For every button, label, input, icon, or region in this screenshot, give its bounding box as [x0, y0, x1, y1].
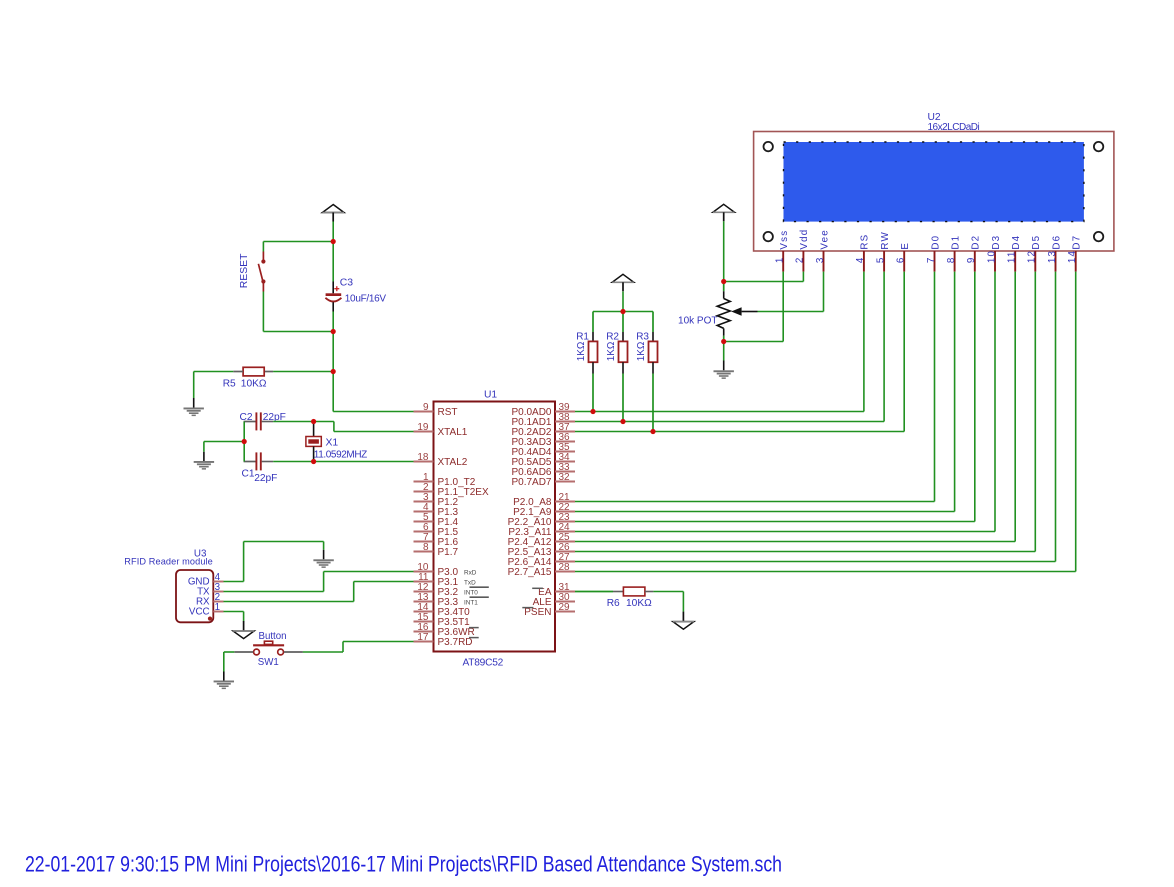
- wire stub (dark) into xtal ground: [203, 452, 205, 461]
- label 1KΩ (R3): [636, 341, 647, 361]
- wire net P2.0_A8 to D0: [575, 272, 935, 502]
- IC U1 pin 27 P2.6_A14 (right): [508, 552, 575, 568]
- U1 overline WR (pin 16): [469, 627, 479, 629]
- junction r5-node: [331, 369, 336, 374]
- resistor R5 10KΩ (horizontal): [233, 367, 333, 376]
- label SW1: [258, 657, 279, 668]
- wire SW1 left to ground: [224, 652, 235, 672]
- supply VCC pot: [713, 204, 735, 221]
- svg-text:6: 6: [896, 256, 907, 263]
- svg-text:E: E: [900, 242, 911, 250]
- junction cap-gnd: [242, 439, 247, 444]
- LCD U2 pin 8 D1: [946, 235, 962, 272]
- label RFID Reader module: [124, 557, 213, 567]
- U1 overline RD (pin 17): [469, 637, 479, 639]
- wire net P2.7_A15 to D7: [575, 272, 1076, 572]
- label R3: [636, 332, 649, 343]
- status text (plot stamp): [25, 852, 782, 877]
- capacitor C2 22pF: [244, 412, 274, 430]
- svg-text:32: 32: [559, 472, 571, 483]
- wire C1 to XTAL2 node: [273, 461, 313, 463]
- LCD module U2 16x2LCDaDi body: [754, 132, 1114, 252]
- wire XTAL2 node to pin18: [314, 461, 414, 463]
- IC U1 pin 31 EA (right): [538, 582, 575, 598]
- crystal X1 11.0592MHZ: [306, 422, 321, 462]
- LCD U2 mounting hole bottom-left: [764, 232, 773, 241]
- wire net P2.4_A12 to D4: [575, 272, 1015, 542]
- junction r2-p01: [620, 419, 625, 424]
- junction r3-p02: [650, 429, 655, 434]
- svg-text:RxD: RxD: [464, 569, 477, 576]
- label R5 10KΩ: [223, 378, 267, 389]
- svg-text:R1: R1: [576, 332, 589, 343]
- svg-text:Vdd: Vdd: [799, 229, 810, 250]
- svg-text:4: 4: [855, 256, 866, 263]
- IC U1 pin 26 P2.5_A13 (right): [508, 542, 575, 558]
- wire net P0.2AD2 to E: [575, 272, 904, 432]
- svg-text:8: 8: [946, 256, 957, 263]
- wire vcc junction down to C3 top: [332, 242, 334, 282]
- svg-text:D3: D3: [991, 235, 1002, 250]
- IC U1 AT89C52 body: [434, 402, 556, 652]
- IC U1 pin 19 XTAL1 (left): [414, 422, 468, 438]
- svg-text:5: 5: [875, 256, 886, 263]
- svg-text:11: 11: [1007, 251, 1018, 264]
- svg-text:P3.7RD: P3.7RD: [438, 637, 473, 648]
- IC U1 pin 14 P3.4T0 (left): [414, 602, 471, 618]
- svg-text:Vss: Vss: [779, 230, 790, 250]
- IC U1 pin 4 P1.3 (left): [414, 502, 459, 518]
- resistor R6 10KΩ (horizontal): [575, 587, 653, 596]
- potentiometer 10k POT: [717, 282, 757, 342]
- junction r1-p00: [590, 409, 595, 414]
- label C1: [242, 469, 255, 480]
- svg-text:1KΩ: 1KΩ: [636, 341, 647, 361]
- label U1: [484, 389, 497, 400]
- svg-text:P0.7AD7: P0.7AD7: [511, 477, 551, 488]
- IC U1 pin 5 P1.4 (left): [414, 512, 459, 528]
- svg-text:PSEN: PSEN: [524, 607, 551, 618]
- label X1: [326, 437, 339, 448]
- svg-text:1: 1: [215, 602, 220, 613]
- svg-text:INT0: INT0: [464, 590, 478, 597]
- svg-text:RST: RST: [438, 407, 458, 418]
- svg-text:3: 3: [815, 256, 826, 263]
- junction pot-bot: [721, 339, 726, 344]
- label 10k POT: [678, 315, 717, 326]
- svg-text:RS: RS: [860, 234, 871, 250]
- wire cap node to ground: [204, 442, 244, 452]
- IC U1 pin 23 P2.2_A10 (right): [508, 512, 575, 528]
- wire pot top to LCD Vdd: [724, 272, 804, 282]
- wire cap left column: [243, 422, 245, 462]
- svg-text:D0: D0: [930, 235, 941, 250]
- wire net P2.2_A10 to D2: [575, 272, 975, 522]
- IC U1 pin 6 P1.5 (left): [414, 522, 459, 538]
- svg-text:SW1: SW1: [258, 657, 279, 668]
- svg-text:29: 29: [559, 602, 571, 613]
- junction reset-low: [331, 329, 336, 334]
- capacitor C3 10uF/16V (polarized): [325, 282, 341, 312]
- svg-text:D2: D2: [971, 235, 982, 250]
- wire net P2.1_A9 to D1: [575, 272, 955, 512]
- svg-text:D4: D4: [1011, 235, 1022, 250]
- wire SW1 right to P3.7RD: [303, 642, 414, 653]
- wire VCC down to junction: [332, 222, 334, 242]
- svg-text:R2: R2: [606, 332, 619, 343]
- wire net P0.0AD0 to RS: [575, 272, 864, 412]
- ground sw1: [214, 681, 234, 690]
- svg-text:XTAL1: XTAL1: [438, 427, 468, 438]
- IC U1 pin 29 PSEN (right): [524, 602, 575, 618]
- label R1: [576, 332, 589, 343]
- svg-text:P1.7: P1.7: [438, 547, 459, 558]
- LCD U2 pin 1 Vss: [775, 230, 791, 272]
- LCD U2 mounting hole top-right: [1094, 142, 1103, 151]
- IC U1 pin 36 P0.3AD3 (right): [511, 432, 575, 448]
- supply VCC pullups: [612, 274, 634, 291]
- U3 pin 4 GND: [188, 572, 224, 588]
- svg-text:P2.7_A15: P2.7_A15: [508, 567, 552, 578]
- label AT89C52: [463, 658, 504, 669]
- label C2: [240, 412, 253, 423]
- IC U1 pin 7 P1.6 (left): [414, 532, 459, 548]
- wire pot wiper to LCD Vee: [758, 272, 824, 312]
- U3 pin 2 RX: [196, 592, 224, 608]
- LCD U2 pin 2 Vdd: [795, 229, 811, 272]
- ground below pot: [714, 370, 734, 379]
- resistor R1 1KΩ (vertical): [589, 312, 598, 412]
- label 22pF (C2): [263, 412, 286, 423]
- svg-text:D5: D5: [1031, 235, 1042, 250]
- label 1KΩ (R1): [576, 341, 587, 361]
- wire XTAL1 node to pin19: [314, 422, 414, 432]
- svg-text:INT1: INT1: [464, 600, 478, 607]
- wire junction left to reset switch column: [263, 242, 333, 252]
- svg-text:19: 19: [417, 422, 429, 433]
- LCD U2 pin 9 D2: [966, 235, 982, 272]
- svg-text:Button: Button: [259, 631, 287, 642]
- LCD U2 pin 4 RS: [855, 234, 871, 272]
- IC U1 pin 35 P0.4AD4 (right): [511, 442, 575, 458]
- svg-text:7: 7: [926, 256, 937, 263]
- svg-text:8: 8: [423, 542, 429, 553]
- wire net P2.3_A11 to D3: [575, 272, 995, 532]
- IC U1 pin 11 P3.1 (left): [414, 572, 459, 588]
- svg-text:10KΩ: 10KΩ: [241, 378, 267, 389]
- resistor R2 1KΩ (vertical): [619, 312, 628, 422]
- IC U1 pin 38 P0.1AD1 (right): [511, 412, 575, 428]
- svg-text:17: 17: [417, 632, 429, 643]
- svg-text:X1: X1: [326, 437, 339, 448]
- svg-text:C1: C1: [242, 469, 255, 480]
- svg-text:RESET: RESET: [239, 253, 250, 288]
- wire U3 TX to P3.0 RxD: [224, 572, 414, 592]
- svg-text:RFID Reader module: RFID Reader module: [124, 557, 213, 567]
- IC U1 pin 30 ALE (right): [533, 592, 575, 608]
- svg-text:TxD: TxD: [464, 579, 476, 586]
- wire net P2.6_A14 to D6: [575, 272, 1056, 562]
- svg-text:2: 2: [795, 256, 806, 263]
- LCD U2 pin 10 D3: [986, 235, 1002, 272]
- LCD U2 screen (blue, dotted border): [784, 142, 1084, 222]
- svg-text:1KΩ: 1KΩ: [606, 341, 617, 361]
- wire pot bottom to LCD Vss: [724, 272, 784, 342]
- wire C3 bottom to junction: [332, 312, 334, 332]
- label RESET: [239, 253, 250, 288]
- IC U1 pin 39 P0.0AD0 (right): [511, 402, 575, 418]
- svg-text:RW: RW: [880, 231, 891, 250]
- label U3: [194, 549, 207, 560]
- label 22pF (C1): [254, 473, 277, 484]
- ground crystal caps: [194, 461, 214, 470]
- junction xtal-top: [311, 419, 316, 424]
- wire stub (dark) into SW1 ground: [223, 672, 225, 681]
- IC U1 pin 1 P1.0_T2 (left): [414, 472, 476, 488]
- U3 name anchor dot: [208, 617, 212, 621]
- svg-text:18: 18: [417, 452, 429, 463]
- U1 pin sublabel INT1 (overline): [464, 597, 489, 606]
- label 11.0592MHZ: [314, 450, 367, 461]
- wire U3 VCC to supply-down: [224, 612, 244, 622]
- IC U1 pin 10 P3.0 (left): [414, 562, 459, 578]
- label 16x2LCDaDi: [928, 122, 980, 133]
- wire stub (dark) into rfid ground: [323, 550, 325, 560]
- IC U1 pin 3 P1.2 (left): [414, 492, 459, 508]
- svg-text:14: 14: [1067, 250, 1078, 263]
- LCD U2 mounting hole bottom-right: [1094, 232, 1103, 241]
- svg-text:AT89C52: AT89C52: [463, 658, 504, 669]
- IC U1 pin 12 P3.2 (left): [414, 582, 459, 598]
- svg-text:10k POT: 10k POT: [678, 315, 717, 326]
- svg-text:R3: R3: [636, 332, 649, 343]
- pushbutton SW1: [234, 641, 303, 655]
- U1 pin sublabel RxD: [464, 569, 477, 576]
- svg-text:Vee: Vee: [819, 229, 830, 250]
- junction reset-vcc: [331, 239, 336, 244]
- LCD U2 pin 12 D5: [1027, 235, 1043, 272]
- svg-text:D7: D7: [1072, 235, 1083, 250]
- wire switch bottom to lower junction: [263, 292, 333, 332]
- wire C2 to XTAL1 node: [273, 421, 313, 423]
- U3 pin 1 VCC: [189, 602, 224, 618]
- IC U1 pin 18 XTAL2 (left): [414, 452, 468, 468]
- supply VCC (inverted) rfid vcc: [233, 621, 254, 639]
- junction pot-top: [721, 279, 726, 284]
- LCD U2 pin 14 D7: [1067, 235, 1083, 272]
- IC U1 pin 33 P0.6AD6 (right): [511, 462, 575, 478]
- wire net P0.1AD1 to RW: [575, 272, 884, 422]
- IC U1 pin 25 P2.4_A12 (right): [508, 532, 575, 548]
- LCD U2 pin 11 D4: [1007, 235, 1023, 272]
- svg-text:VCC: VCC: [189, 607, 210, 618]
- ground rfid: [313, 559, 333, 568]
- U1 overline PSEN (pin 29): [522, 607, 533, 609]
- svg-text:28: 28: [559, 562, 571, 573]
- svg-text:C3: C3: [340, 278, 354, 289]
- svg-text:C2: C2: [240, 412, 253, 423]
- IC U1 pin 15 P3.5T1 (left): [414, 612, 471, 628]
- svg-text:1KΩ: 1KΩ: [576, 341, 587, 361]
- label R6 10KΩ: [607, 598, 652, 609]
- svg-text:9: 9: [423, 402, 429, 413]
- wire net P2.5_A13 to D5: [575, 272, 1035, 552]
- LCD U2 pin 6 E: [896, 242, 912, 272]
- junction xtal-bot: [311, 459, 316, 464]
- svg-text:1: 1: [775, 256, 786, 263]
- wire R6 to supply-down: [653, 592, 683, 612]
- IC U1 pin 8 P1.7 (left): [414, 542, 459, 558]
- svg-text:R6: R6: [607, 598, 620, 609]
- LCD U2 pin 13 D6: [1047, 235, 1063, 272]
- IC U1 pin 22 P2.1_A9 (right): [513, 502, 575, 518]
- junction pullup-vcc: [620, 309, 625, 314]
- label C3: [340, 278, 354, 289]
- label U2: [928, 112, 941, 123]
- wire vcc to pot top: [723, 221, 725, 281]
- U3 pin 3 TX: [197, 582, 223, 598]
- resistor R3 1KΩ (vertical): [649, 312, 658, 432]
- label R2: [606, 332, 619, 343]
- IC U1 pin 13 P3.3 (left): [414, 592, 459, 608]
- wire stub (dark) into pot ground: [723, 361, 725, 371]
- LCD U2 pin 7 D0: [926, 235, 942, 272]
- capacitor C1 22pF: [244, 452, 274, 470]
- wire U3 RX to P3.1 TxD: [224, 582, 414, 602]
- U1 overline EA (pin 31): [532, 587, 543, 589]
- IC U1 pin 37 P0.2AD2 (right): [511, 422, 575, 438]
- svg-text:12: 12: [1027, 250, 1038, 263]
- wire R5 left to ground drop: [194, 372, 234, 399]
- svg-text:10uF/16V: 10uF/16V: [345, 294, 387, 305]
- svg-text:D1: D1: [950, 235, 961, 250]
- IC U1 pin 21 P2.0_A8 (right): [513, 492, 575, 508]
- IC U1 pin 24 P2.3_A11 (right): [508, 522, 575, 538]
- label 10uF/16V: [345, 294, 387, 305]
- LCD U2 mounting hole top-left: [764, 142, 773, 151]
- svg-text:22-01-2017 9:30:15 PM Mini Pro: 22-01-2017 9:30:15 PM Mini Projects\2016…: [25, 852, 782, 877]
- IC U1 pin 34 P0.5AD5 (right): [511, 452, 575, 468]
- supply VCC (inverted) EA pullup: [673, 612, 694, 630]
- svg-text:D6: D6: [1051, 235, 1062, 250]
- IC U1 pin 2 P1.1_T2EX (left): [414, 482, 489, 498]
- ground below R5: [184, 408, 204, 417]
- wire vcc to pullup rail: [622, 292, 624, 312]
- svg-text:9: 9: [966, 256, 977, 263]
- wire node down to RST row: [333, 372, 413, 412]
- wire pot bottom to ground: [723, 342, 725, 361]
- IC U1 pin 17 P3.7RD (left): [414, 632, 473, 648]
- wire stub (dark) into ground: [193, 398, 195, 408]
- supply VCC reset net: [322, 205, 344, 222]
- svg-text:XTAL2: XTAL2: [438, 457, 468, 468]
- wire pullup top rail: [593, 311, 653, 313]
- LCD U2 pin 3 Vee: [815, 229, 831, 272]
- U1 pin sublabel TxD: [464, 579, 476, 586]
- svg-text:R5: R5: [223, 378, 236, 389]
- svg-text:22pF: 22pF: [254, 473, 277, 484]
- svg-text:16x2LCDaDi: 16x2LCDaDi: [928, 122, 980, 133]
- IC U1 pin 9 RST (left): [414, 402, 458, 418]
- svg-text:13: 13: [1047, 250, 1058, 263]
- svg-text:U1: U1: [484, 389, 497, 400]
- label 1KΩ (R2): [606, 341, 617, 361]
- module U3 RFID Reader body: [176, 570, 213, 622]
- svg-text:11.0592MHZ: 11.0592MHZ: [314, 450, 367, 461]
- IC U1 pin 28 P2.7_A15 (right): [508, 562, 575, 578]
- svg-text:10: 10: [986, 250, 997, 263]
- wire U3 GND to ground symbol: [224, 542, 324, 582]
- U1 pin sublabel INT0 (overline): [464, 587, 489, 596]
- IC U1 pin 16 P3.6WR (left): [414, 622, 475, 638]
- label Button: [259, 631, 287, 642]
- svg-text:10KΩ: 10KΩ: [626, 598, 652, 609]
- switch RESET (pushbutton contacts): [258, 252, 265, 292]
- IC U1 pin 32 P0.7AD7 (right): [511, 472, 575, 488]
- LCD U2 pin 5 RW: [875, 231, 891, 272]
- wire junction down to R5 node: [332, 332, 334, 372]
